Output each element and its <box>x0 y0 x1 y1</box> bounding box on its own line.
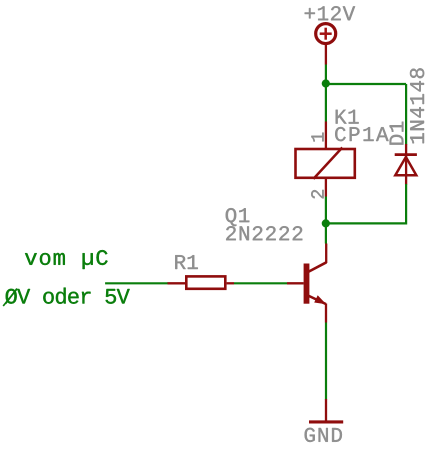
collector diagonal <box>308 262 326 272</box>
transistor Q1 value 2N2222 <box>226 226 302 240</box>
right pin <box>227 282 234 284</box>
pin 1 (top) <box>325 122 327 149</box>
coil body <box>296 149 355 178</box>
wire: Q1 emitter to GND <box>325 323 327 400</box>
text 0V oder 5V <box>5 288 130 304</box>
gnd pin <box>325 399 327 421</box>
relay pin number 1 <box>311 133 323 142</box>
pin of +12V symbol <box>325 44 327 65</box>
relay K1 name <box>336 110 359 124</box>
emitter pin vertical <box>325 304 327 323</box>
left pin <box>168 282 186 284</box>
collector pin vertical <box>325 244 327 264</box>
wire: diode branch down to diode cathode <box>405 84 407 145</box>
relay K1 coil <box>296 122 355 197</box>
diode D1 value 1N4148 <box>410 68 424 143</box>
ground label GND <box>305 428 342 442</box>
wire: +12V to junction A and on to relay pin 1 <box>325 65 327 122</box>
pin 2 (bottom) <box>325 179 327 197</box>
cathode bar <box>395 153 417 156</box>
pin line through symbol <box>405 144 407 185</box>
body <box>186 276 225 288</box>
emitter diagonal <box>308 296 326 305</box>
diode D1 label <box>390 122 404 145</box>
gnd bar <box>309 420 343 423</box>
junction B <box>322 219 330 227</box>
base pin <box>287 282 304 284</box>
resistor R1 name <box>175 255 198 269</box>
wire: resistor R1 to Q1 base <box>234 282 287 284</box>
power supply symbol +12V <box>316 24 336 65</box>
resistor R1 <box>168 276 235 288</box>
ground symbol GND <box>309 399 343 422</box>
diode D1 <box>395 144 417 185</box>
coil diagonal <box>313 148 342 179</box>
emitter arrowhead <box>314 295 326 304</box>
wire: input to resistor R1 <box>105 282 168 284</box>
transistor Q1 name <box>226 208 250 226</box>
transistor Q1 <box>287 244 326 323</box>
junction A <box>322 79 330 87</box>
relay K1 value CP1A <box>335 127 388 141</box>
wire: diode anode down and left to junction B <box>326 184 406 223</box>
base bar <box>304 264 310 304</box>
slash extension of the 0 glyph <box>3 289 17 306</box>
net label +12V <box>305 6 355 20</box>
wire: relay pin 2 to junction B and down to Q1 collector <box>325 197 327 244</box>
wire: junction A to diode branch (horizontal) <box>326 83 406 85</box>
anode triangle <box>395 157 416 175</box>
text vom µC <box>25 250 108 269</box>
relay pin number 2 <box>311 190 323 199</box>
